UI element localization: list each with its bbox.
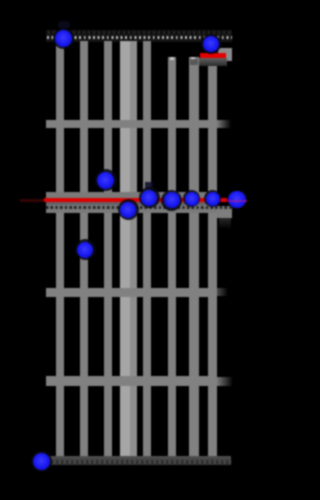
- blue dot D10: [77, 242, 93, 258]
- blue dot D5 halo: [161, 190, 182, 211]
- fret bar 1 right fading stub: [217, 120, 231, 128]
- blue dot D9: [120, 202, 136, 218]
- blue dot D5: [164, 192, 180, 208]
- blue dot D6 halo: [183, 190, 200, 207]
- white dotted nut line: [47, 36, 232, 39]
- vertical bar 3: [104, 41, 112, 456]
- fret bar 3: [46, 288, 217, 297]
- blue dot D8 halo (right edge, wide): [227, 190, 247, 209]
- blue dot D7 halo: [204, 190, 221, 207]
- fret band 2 (wide band with red line): [46, 192, 217, 213]
- blue dot D11: [33, 453, 50, 470]
- faint upper dashed line: [48, 31, 230, 34]
- blue dot D1 halo (top-left): [53, 28, 74, 49]
- blue dot D2 halo (top-right): [201, 34, 221, 54]
- dark dotted line inside fret band 2: [46, 206, 232, 209]
- blue dot D6: [185, 192, 199, 206]
- top-right red underline bar: [200, 53, 227, 58]
- bottom dotted band: [46, 460, 231, 465]
- top nut band dark background: [46, 30, 232, 42]
- thin purple right continuation of red line: [229, 200, 247, 203]
- faint dark red left tail of red line: [20, 199, 45, 202]
- blue dot D7: [206, 192, 220, 206]
- blue dot D2: [203, 36, 219, 52]
- fret bar 4: [46, 376, 217, 386]
- vertical bar 4 (light): [120, 41, 130, 456]
- bottom end band: [46, 456, 231, 465]
- vertical bar 5 (medium): [130, 41, 138, 456]
- fret band 2 right lower block: [217, 209, 233, 218]
- vertical bar 7: [168, 57, 176, 456]
- blue dot D9 halo (below red line): [118, 199, 139, 220]
- vertical bar 1: [56, 41, 65, 456]
- fret bar 3 right faint nub: [217, 288, 228, 296]
- faint navy smudge above dot D4: [145, 182, 153, 189]
- faint navy smudge above dot D1: [58, 21, 70, 28]
- dark strip under red line: [46, 202, 217, 205]
- vertical bar 2: [80, 41, 88, 456]
- gray band under top-right red bar: [199, 58, 227, 66]
- fret bar 1: [46, 120, 217, 128]
- blue dot D11 halo (bottom-left): [31, 451, 52, 472]
- vertical bar 6: [143, 41, 151, 456]
- white speck top of bar 8: [191, 57, 195, 61]
- red detected line (main, y~200): [44, 198, 230, 203]
- white speck top of bar 7: [170, 57, 174, 61]
- top-right gray block: [218, 48, 232, 62]
- dim gray mark left of top-right band: [190, 59, 198, 65]
- magenta line over dot D8: [228, 200, 247, 202]
- blue dot D3 halo: [95, 169, 117, 191]
- blue dot D8: [228, 191, 246, 208]
- blue dot D3: [97, 172, 114, 189]
- blue dot D4: [141, 190, 157, 206]
- blue dot D1: [55, 30, 72, 47]
- fret bar 4 right fading stub: [217, 377, 233, 386]
- vertical bar 8: [189, 57, 200, 456]
- faint column below right block: [219, 218, 231, 229]
- blue dot D10 halo: [75, 239, 96, 260]
- vertical bar 9: [208, 62, 217, 456]
- blue dot D4 halo: [139, 187, 160, 208]
